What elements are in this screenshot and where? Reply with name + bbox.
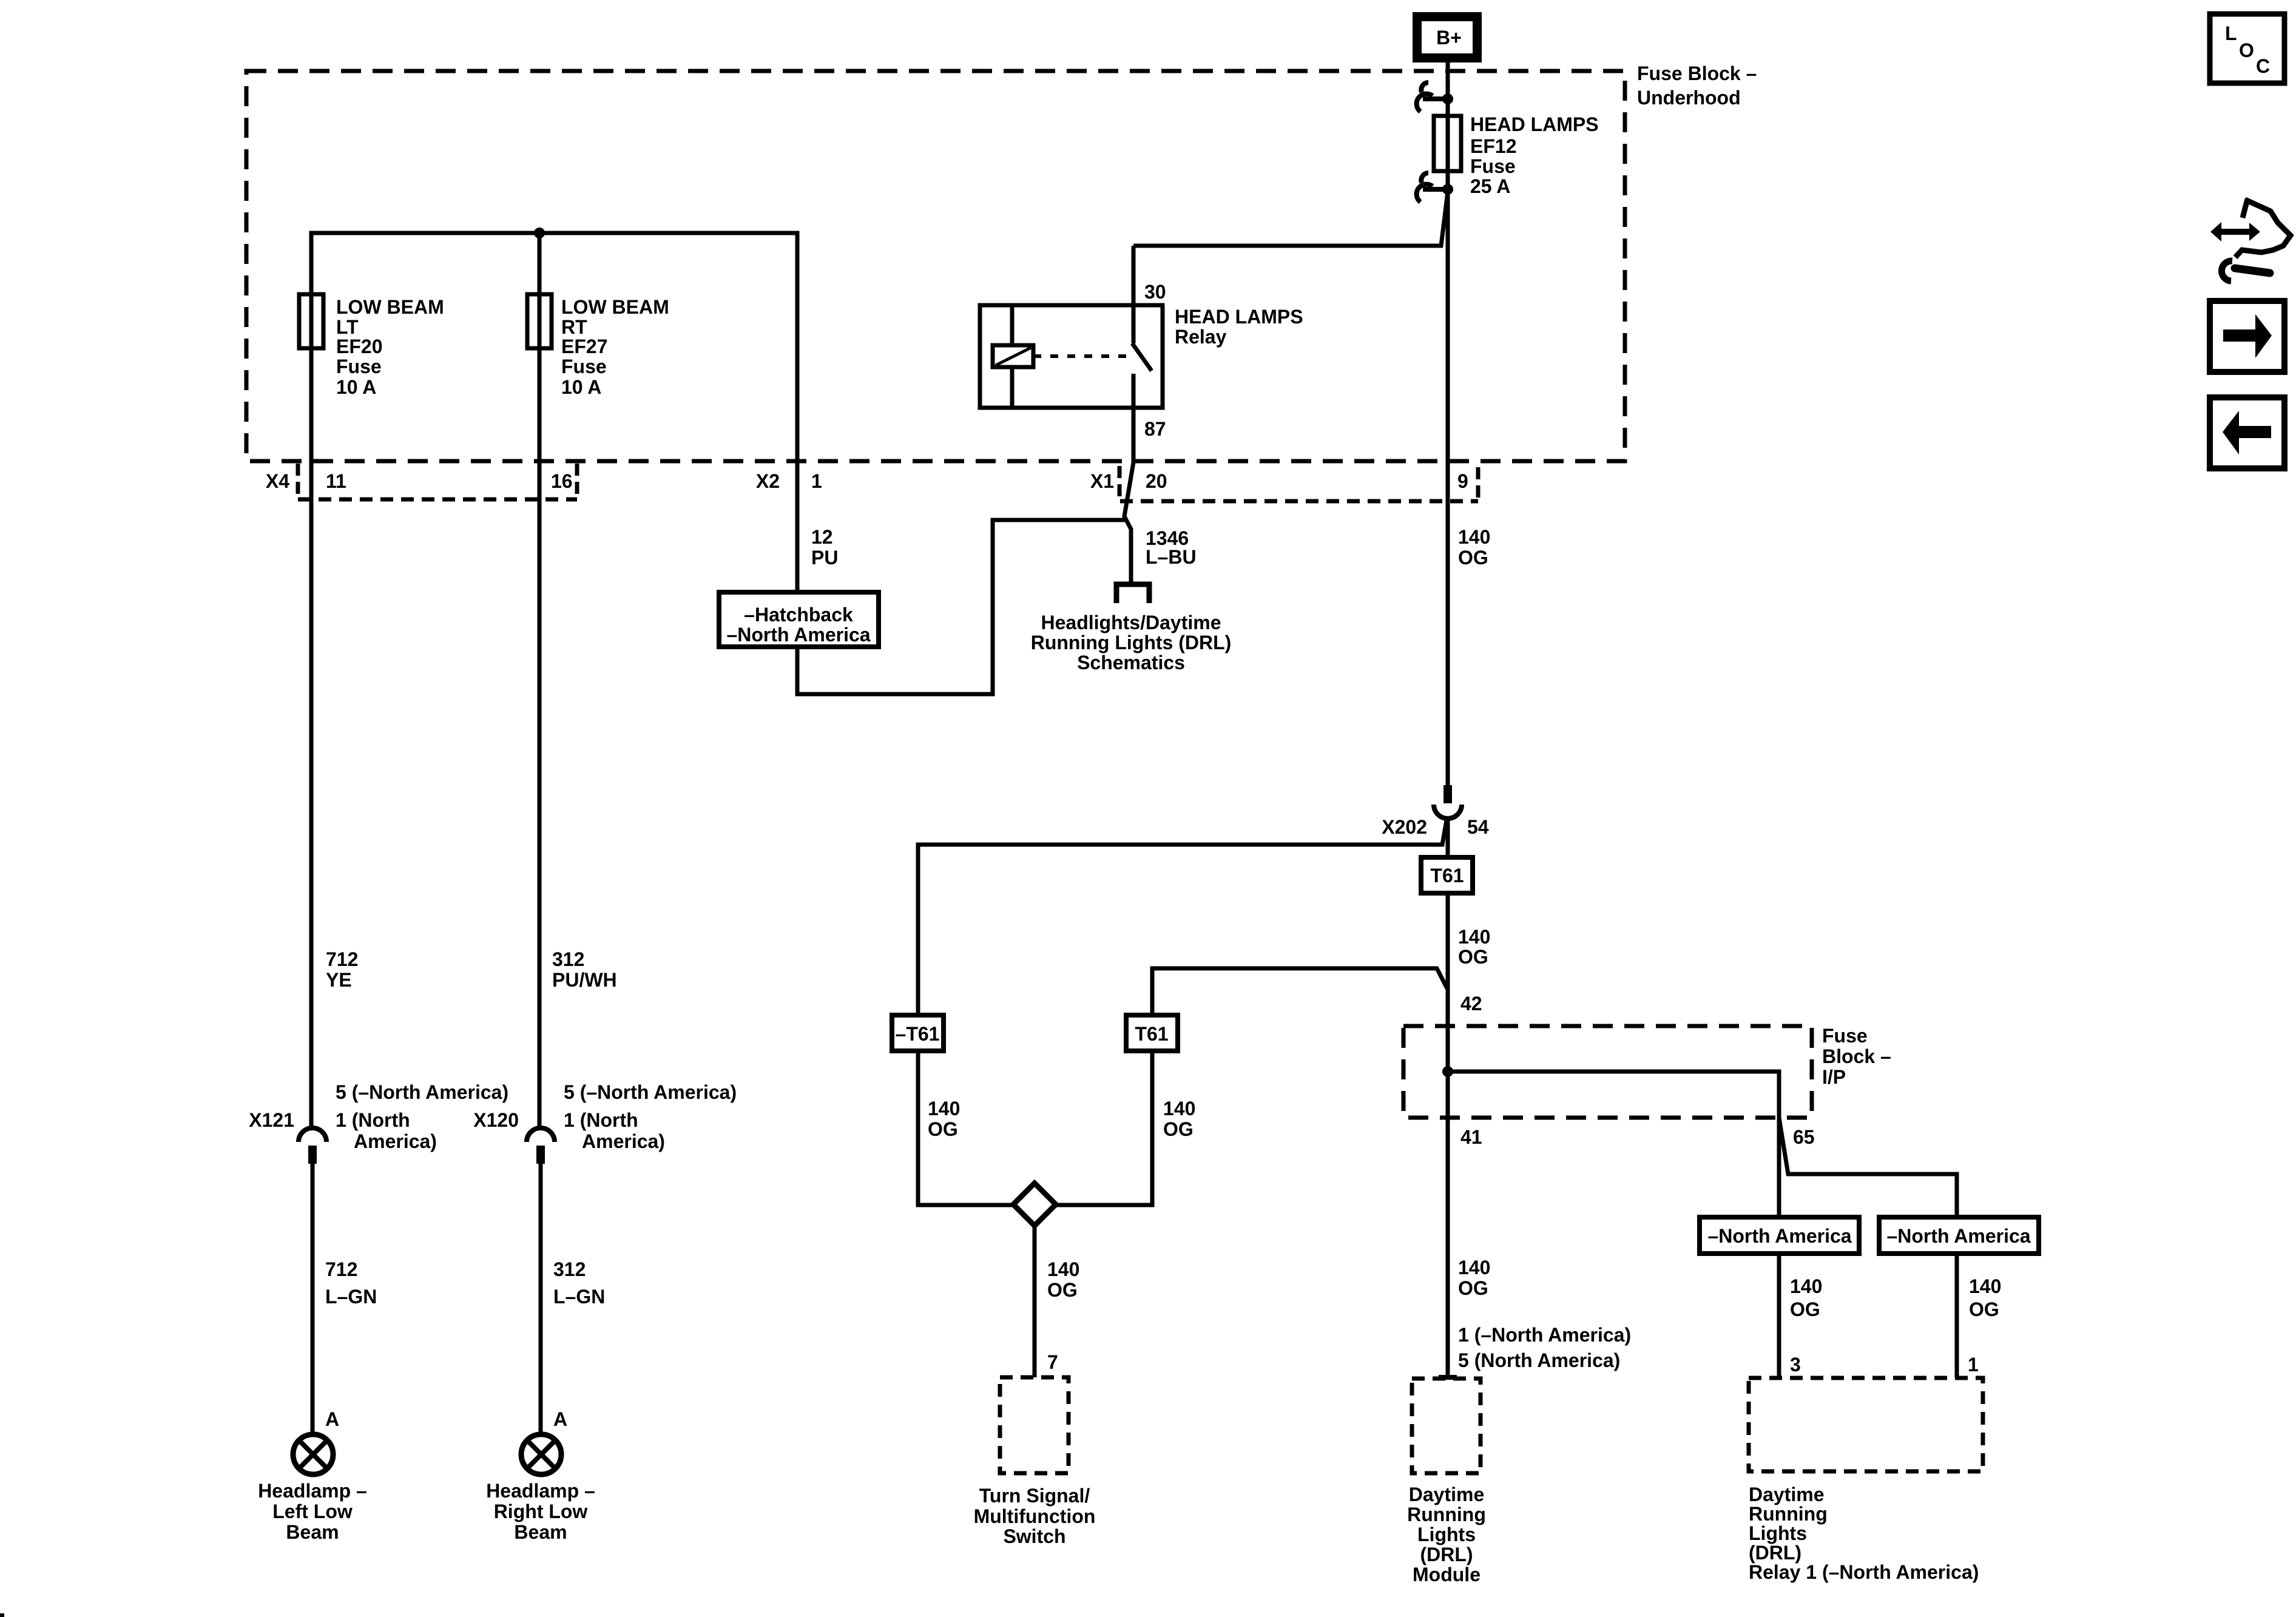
svg-text:X2: X2 — [756, 470, 780, 492]
junction dot inside I/P block — [1442, 1066, 1453, 1077]
svg-text:OG: OG — [1458, 1277, 1488, 1299]
wire left option box down to DRL relay pin 3 — [1777, 1254, 1781, 1378]
connector X1 label — [1090, 470, 1114, 492]
connector pin 9 bracket dashes — [1476, 467, 1481, 498]
Headlamp Left Low Beam label — [258, 1480, 367, 1543]
wire circuit 712 L-GN label — [325, 1258, 377, 1308]
svg-text:Lights: Lights — [1417, 1524, 1476, 1545]
svg-text:1 (North: 1 (North — [336, 1109, 410, 1131]
svg-text:–T61: –T61 — [896, 1023, 940, 1045]
connector X121 symbol (cup and pin) — [299, 1128, 326, 1164]
diamond splice junction — [1013, 1183, 1056, 1226]
svg-text:312: 312 — [553, 1258, 586, 1280]
svg-text:Right Low: Right Low — [494, 1501, 588, 1522]
svg-text:140: 140 — [1969, 1275, 2001, 1297]
inline connector X202 pin 54 (male pin and female cup) — [1434, 785, 1462, 819]
svg-text:O: O — [2239, 39, 2254, 61]
junction dot at EF12 bottom terminal — [1442, 184, 1453, 195]
relay K (HEAD LAMPS Relay) outline — [980, 305, 1163, 408]
off-page reference bracket to DRL schematics — [1116, 584, 1149, 603]
svg-text:1 (North: 1 (North — [564, 1109, 638, 1131]
fuse EF12 (HEAD LAMPS 25 A) — [1434, 116, 1461, 171]
svg-text:LT: LT — [336, 316, 359, 338]
svg-text:OG: OG — [1790, 1298, 1820, 1320]
pin 65 label — [1793, 1126, 1815, 1148]
svg-text:Switch: Switch — [1003, 1525, 1065, 1547]
svg-text:Relay 1 (–North America): Relay 1 (–North America) — [1749, 1561, 1979, 1583]
connector X202 label — [1382, 816, 1427, 838]
splice T61 (on main feed) — [1421, 857, 1473, 893]
Headlamp Right Low Beam label — [486, 1480, 595, 1543]
pin 7 label — [1047, 1351, 1058, 1373]
svg-text:OG: OG — [1458, 547, 1488, 569]
Fuse Block - I/P enclosure (dashed) — [1403, 1026, 1812, 1118]
svg-text:42: 42 — [1460, 993, 1482, 1014]
svg-text:Headlamp –: Headlamp – — [258, 1480, 367, 1502]
svg-text:Headlights/Daytime: Headlights/Daytime — [1041, 612, 1221, 633]
lamp terminal A label (right) — [553, 1408, 567, 1430]
pin 16 label — [551, 470, 573, 492]
pin 3 label — [1790, 1354, 1801, 1376]
wire circuit 140 OG label (relay pin 1) — [1969, 1275, 2001, 1320]
svg-text:20: 20 — [1146, 470, 1167, 492]
svg-text:OG: OG — [928, 1118, 958, 1140]
connector row: X4 bracket dashes — [298, 464, 577, 499]
Turn Signal / Multifunction Switch label — [974, 1485, 1096, 1547]
svg-text:X121: X121 — [249, 1109, 294, 1131]
forward arrow navigation box — [2210, 301, 2284, 372]
option box -North America (right) — [1879, 1217, 2039, 1254]
svg-text:3: 3 — [1790, 1354, 1801, 1376]
svg-text:X4: X4 — [266, 470, 289, 492]
svg-text:X1: X1 — [1090, 470, 1114, 492]
connector X121 label — [249, 1109, 294, 1131]
wire EF12 terminal down to fuse block pin 9 — [1446, 189, 1450, 461]
lamp E1: Headlamp Left Low Beam (bulb symbol) — [293, 1434, 333, 1474]
svg-text:HEAD LAMPS: HEAD LAMPS — [1470, 113, 1599, 135]
wire -T61 down to diamond junction — [918, 1051, 1016, 1205]
svg-text:Running: Running — [1749, 1503, 1828, 1525]
svg-text:Running: Running — [1407, 1504, 1486, 1525]
splice T61 box (middle) — [1126, 1015, 1178, 1051]
wire circuit 140 OG label (to switch) — [1047, 1258, 1079, 1301]
svg-text:140: 140 — [1163, 1098, 1195, 1119]
fuse EF27 (LOW BEAM RT 10 A) — [527, 294, 552, 348]
wire pin 42 through I/P block — [1446, 1026, 1450, 1118]
Daytime Running Lights (DRL) Module box (dashed) — [1412, 1379, 1481, 1473]
svg-text:Fuse Block –: Fuse Block – — [1637, 62, 1757, 84]
svg-text:11: 11 — [326, 470, 346, 492]
DRL Module label — [1407, 1484, 1486, 1585]
svg-text:Running Lights (DRL): Running Lights (DRL) — [1031, 632, 1232, 653]
wire pin 9 down to X202 connector — [1446, 461, 1450, 785]
battery positive voltage B+ — [1413, 12, 1482, 62]
wire circuit 140 OG label (left branch) — [928, 1098, 960, 1140]
connector X120 symbol (cup and pin) — [527, 1128, 555, 1164]
relay switch blade pin 30 to 87 — [1132, 305, 1152, 408]
svg-text:EF27: EF27 — [561, 336, 607, 357]
svg-text:–North America: –North America — [726, 624, 870, 646]
svg-text:Schematics: Schematics — [1077, 652, 1185, 673]
wire circuit 140 OG label (relay pin 3) — [1790, 1275, 1822, 1320]
branch wire to middle T61 splice — [1152, 968, 1447, 1015]
svg-text:Underhood: Underhood — [1637, 87, 1741, 109]
fuse clip terminal (bottom of EF12) — [1417, 173, 1448, 202]
connector X4 lower dashed line — [298, 498, 577, 502]
svg-text:LOW BEAM: LOW BEAM — [561, 296, 669, 318]
wire middle T61 down to diamond junction — [1053, 1051, 1152, 1205]
connector X1 bracket dashes — [1118, 466, 1122, 498]
wire X2 pin 1 down to hatchback option box — [795, 461, 800, 592]
wire relay pin 30 up to feed — [1132, 246, 1136, 305]
svg-text:10 A: 10 A — [561, 376, 601, 398]
wire circuit 140 OG label (middle branch) — [1163, 1098, 1195, 1140]
relay pin 87 label — [1144, 418, 1166, 440]
page corner mark — [0, 1613, 4, 1617]
svg-text:5 (North America): 5 (North America) — [1458, 1349, 1620, 1371]
LOC legend icon box — [2210, 14, 2284, 83]
svg-text:America): America) — [582, 1130, 665, 1152]
pin 20 label — [1146, 470, 1167, 492]
off-page reference label — [1031, 612, 1232, 673]
svg-text:L–GN: L–GN — [325, 1286, 377, 1308]
svg-text:EF12: EF12 — [1470, 135, 1516, 157]
svg-text:HEAD LAMPS: HEAD LAMPS — [1175, 306, 1303, 328]
wire fuse EF27 down to X120 — [538, 348, 542, 1126]
svg-text:140: 140 — [1458, 926, 1490, 948]
wire relay pin 87 down through X1-20 — [1124, 408, 1133, 583]
pin 1 label (relay) — [1968, 1354, 1979, 1376]
wire circuit 712 YE label — [326, 948, 358, 991]
svg-text:YE: YE — [326, 969, 352, 991]
DRL Relay 1 label — [1749, 1484, 1979, 1583]
svg-text:X120: X120 — [473, 1109, 519, 1131]
wire circuit 12 PU label — [811, 526, 838, 569]
DRL module pin label 1 (-North America) — [1458, 1324, 1631, 1346]
wire pin 65 split to relay 1 (left leg) — [1777, 1118, 1781, 1217]
fuse EF12 value label — [1470, 113, 1599, 197]
svg-text:87: 87 — [1144, 418, 1166, 440]
svg-text:(DRL): (DRL) — [1420, 1544, 1473, 1565]
wire diamond down to turn signal switch pin 7 — [1033, 1226, 1037, 1377]
back arrow navigation box — [2210, 397, 2284, 468]
svg-text:X202: X202 — [1382, 816, 1427, 838]
wire X120 down to right low beam lamp — [539, 1164, 543, 1434]
svg-text:54: 54 — [1467, 816, 1489, 838]
svg-text:Beam: Beam — [286, 1521, 339, 1543]
connector X4 label — [266, 470, 289, 492]
svg-text:OG: OG — [1458, 946, 1488, 968]
svg-text:A: A — [325, 1408, 339, 1430]
pin 9 label — [1457, 470, 1468, 492]
wire B+ down into fuse block — [1446, 62, 1450, 97]
connector X1 lower dashed line — [1120, 499, 1478, 504]
svg-text:140: 140 — [1458, 1257, 1490, 1278]
svg-text:–North America: –North America — [1707, 1225, 1851, 1247]
svg-text:–North America: –North America — [1886, 1225, 2030, 1247]
Fuse Block - I/P label — [1822, 1025, 1891, 1088]
svg-text:16: 16 — [551, 470, 573, 492]
pin 1 label (X2) — [811, 470, 822, 492]
svg-text:Relay: Relay — [1175, 326, 1227, 348]
relay pin 30 label — [1144, 281, 1166, 303]
Fuse Block - Underhood enclosure (dashed) — [246, 71, 1625, 461]
svg-text:140: 140 — [1047, 1258, 1079, 1280]
connector X120 pin labels — [564, 1081, 737, 1152]
svg-text:10 A: 10 A — [336, 376, 376, 398]
svg-text:C: C — [2256, 55, 2270, 77]
wire terminal bar at DRL module — [1439, 1375, 1457, 1380]
wire X121 down to left low beam lamp — [311, 1164, 315, 1434]
wire branch inside I/P block to pin 65 — [1448, 1072, 1779, 1118]
svg-text:PU/WH: PU/WH — [552, 969, 617, 991]
svg-text:America): America) — [354, 1130, 437, 1152]
svg-text:B+: B+ — [1436, 27, 1462, 49]
svg-text:L: L — [2225, 22, 2237, 44]
pin 11 label — [326, 470, 346, 492]
svg-text:Turn Signal/: Turn Signal/ — [979, 1485, 1090, 1507]
relay coil — [993, 305, 1033, 408]
svg-text:I/P: I/P — [1822, 1066, 1846, 1088]
svg-text:41: 41 — [1460, 1126, 1482, 1148]
wire fuse EF20 down to X121 — [309, 348, 314, 1126]
relay name label — [1175, 306, 1303, 348]
fuse EF27 value label — [561, 296, 669, 398]
wire X202 to splice T61 — [1446, 820, 1450, 857]
wire bus down to LOW BEAM RT fuse — [538, 233, 542, 348]
svg-text:712: 712 — [326, 948, 358, 970]
DRL module pin label 5 (North America) — [1458, 1349, 1620, 1371]
svg-text:140: 140 — [1458, 526, 1490, 548]
svg-text:1: 1 — [1968, 1354, 1979, 1376]
svg-text:A: A — [553, 1408, 567, 1430]
svg-text:Module: Module — [1413, 1564, 1481, 1585]
fuse EF20 value label — [336, 296, 444, 398]
wire EF12 terminal slant to relay pin 30 feed — [1133, 192, 1448, 246]
option box -North America (left) — [1700, 1217, 1859, 1254]
wire circuit 140 OG label (to DRL module) — [1458, 1257, 1490, 1299]
wire circuit 140 OG label (above X202) — [1458, 526, 1490, 569]
splice -T61 box — [892, 1015, 944, 1051]
svg-text:Fuse: Fuse — [336, 356, 382, 377]
wire hatchback loop to X1-20 net — [797, 520, 1126, 694]
svg-text:Lights: Lights — [1749, 1522, 1807, 1544]
junction dot at EF12 top terminal — [1442, 93, 1453, 104]
svg-text:25 A: 25 A — [1470, 175, 1510, 197]
wire circuit 312 PU/WH label — [552, 948, 617, 991]
svg-text:Fuse: Fuse — [1470, 155, 1516, 177]
svg-text:EF20: EF20 — [336, 336, 382, 357]
svg-text:Headlamp –: Headlamp – — [486, 1480, 595, 1502]
pin 42 label — [1460, 993, 1482, 1014]
svg-text:Fuse: Fuse — [561, 356, 607, 377]
svg-text:T61: T61 — [1135, 1023, 1168, 1045]
svg-text:LOW BEAM: LOW BEAM — [336, 296, 444, 318]
svg-text:OG: OG — [1163, 1118, 1194, 1140]
svg-text:7: 7 — [1047, 1351, 1058, 1373]
Fuse Block - Underhood label — [1637, 62, 1757, 109]
svg-text:5 (–North America): 5 (–North America) — [336, 1081, 508, 1103]
svg-text:140: 140 — [928, 1098, 960, 1119]
junction dot on top bus — [534, 228, 545, 238]
svg-text:140: 140 — [1790, 1275, 1822, 1297]
wire pin 41 down to DRL module — [1446, 1118, 1450, 1377]
wire right option box down to DRL relay pin 1 — [1955, 1254, 1959, 1378]
wire circuit 312 L-GN label — [553, 1258, 605, 1308]
svg-text:PU: PU — [811, 547, 838, 569]
svg-text:Beam: Beam — [514, 1521, 567, 1543]
svg-text:T61: T61 — [1430, 865, 1464, 886]
Turn Signal / Multifunction Switch box (dashed) — [1000, 1377, 1069, 1473]
wire terminal to fuse EF12 — [1446, 99, 1450, 118]
svg-text:30: 30 — [1144, 281, 1166, 303]
svg-text:1 (–North America): 1 (–North America) — [1458, 1324, 1631, 1346]
svg-text:L–BU: L–BU — [1146, 546, 1197, 568]
svg-text:L–GN: L–GN — [553, 1286, 605, 1308]
svg-text:Daytime: Daytime — [1749, 1484, 1825, 1505]
relay actuation dashed link — [1033, 354, 1127, 358]
connector X2 label — [756, 470, 780, 492]
svg-text:–Hatchback: –Hatchback — [744, 604, 853, 626]
wire fuse EF12 to bottom terminal — [1446, 171, 1450, 189]
branch wire to -T61 splice (left) — [918, 820, 1447, 1015]
wire circuit 1346 L-BU label — [1146, 527, 1197, 568]
svg-text:712: 712 — [325, 1258, 357, 1280]
lamp terminal A label (left) — [325, 1408, 339, 1430]
svg-text:1: 1 — [811, 470, 822, 492]
svg-text:(DRL): (DRL) — [1749, 1542, 1801, 1564]
pin 41 label — [1460, 1126, 1482, 1148]
svg-text:65: 65 — [1793, 1126, 1815, 1148]
fuse EF20 (LOW BEAM LT 10 A) — [299, 294, 323, 348]
svg-text:312: 312 — [552, 948, 584, 970]
wire T61 down to pin 42 — [1446, 893, 1450, 1026]
svg-text:12: 12 — [811, 526, 833, 548]
svg-text:5 (–North America): 5 (–North America) — [564, 1081, 737, 1103]
svg-text:Block –: Block – — [1822, 1045, 1891, 1067]
svg-text:9: 9 — [1457, 470, 1468, 492]
option box -Hatchback -North America — [719, 592, 879, 647]
wire circuit 140 OG label (below T61) — [1458, 926, 1490, 968]
svg-text:Multifunction: Multifunction — [974, 1505, 1096, 1527]
connector X121 pin labels — [336, 1081, 508, 1152]
svg-text:OG: OG — [1047, 1279, 1078, 1301]
pin 54 label — [1467, 816, 1489, 838]
Daytime Running Lights (DRL) Relay 1 box (dashed) — [1749, 1378, 1983, 1471]
adjust/service hand-wrench icon — [2210, 199, 2291, 281]
fuse clip terminal (top of EF12) — [1417, 83, 1448, 112]
wire pin 65 branch (right leg) — [1779, 1118, 1957, 1217]
svg-text:RT: RT — [561, 316, 587, 338]
lamp E2: Headlamp Right Low Beam (bulb symbol) — [521, 1434, 561, 1474]
top bus wire from low beam fuses to X2 — [311, 233, 797, 461]
svg-text:Fuse: Fuse — [1822, 1025, 1868, 1047]
connector X120 label — [473, 1109, 519, 1131]
svg-text:Left Low: Left Low — [272, 1501, 353, 1522]
svg-text:Daytime: Daytime — [1409, 1484, 1485, 1505]
svg-text:OG: OG — [1969, 1298, 1999, 1320]
